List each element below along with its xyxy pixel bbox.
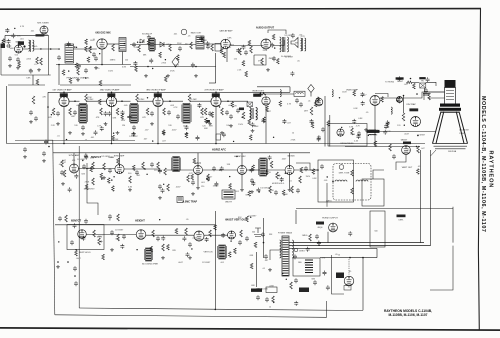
CRT neck outline — [445, 88, 456, 105]
mixer area part 23 junction — [124, 43, 125, 44]
svg-text:6.8K: 6.8K — [354, 108, 359, 110]
svg-text:270K: 270K — [291, 140, 296, 142]
vert area part 30 junction — [159, 219, 160, 220]
sync res R46 — [142, 162, 145, 169]
sync cap C41 — [82, 164, 86, 169]
psu cap C82 — [264, 254, 268, 259]
mixer bypass C5 — [94, 56, 98, 61]
tuner coil link — [33, 48, 51, 50]
4th IF transformer secondary winding — [256, 108, 258, 120]
sound IF area part 10 resistor — [159, 52, 162, 58]
vert area part 24 resistor — [175, 228, 178, 234]
output transformer primary T2a — [280, 37, 282, 52]
IF stage 3 bypass cap — [150, 111, 154, 116]
audio area part 2 capacitor — [242, 45, 246, 50]
horiz feed drop x263 — [263, 218, 265, 258]
IF strip area part 20 capacitor — [94, 130, 98, 135]
antenna terminal block — [1, 44, 6, 49]
mixer area part 20 junction — [74, 46, 75, 47]
svg-text:J2: J2 — [269, 307, 271, 309]
sync link 1 — [79, 168, 116, 170]
sound IF area part 12 resistor — [135, 66, 138, 72]
IF input cap — [29, 110, 33, 115]
svg-text:HV: HV — [421, 81, 424, 83]
svg-text:270K: 270K — [170, 71, 175, 73]
IF stage 2 bypass cap — [104, 111, 108, 116]
IF strip area part 60 junction — [66, 139, 67, 140]
sound IF area part 30 capacitor — [206, 41, 210, 46]
horiz area part 13 resistor — [282, 190, 285, 196]
vert area part 3 junction — [58, 241, 59, 242]
svg-text:HORIZ OUTPUT: HORIZ OUTPUT — [322, 218, 338, 220]
yoke damping resistor R55 — [351, 170, 354, 176]
svg-text:10: 10 — [338, 255, 341, 257]
video det box right — [289, 87, 291, 93]
damper tube V23 — [344, 276, 354, 286]
sync cap C44 — [150, 162, 154, 167]
CRT base leads — [431, 150, 437, 156]
defl dark label — [397, 215, 406, 218]
horiz drive res R57 — [269, 186, 272, 193]
mixer area part 17 junction — [68, 70, 69, 71]
video det cap b — [299, 102, 303, 107]
audio output tube V5 — [261, 39, 271, 49]
horiz area part 2 junction — [285, 173, 286, 174]
IF strip area part 59 junction — [219, 106, 220, 107]
vert area part 21 resistor — [214, 225, 217, 231]
IF stage 3 plate node — [157, 92, 159, 94]
IF stage 1 ground b — [68, 131, 72, 135]
video area part 19 capacitor — [360, 92, 364, 97]
svg-text:500: 500 — [128, 173, 132, 175]
crt socket cluster — [423, 94, 429, 96]
svg-text:1/2 6SN7: 1/2 6SN7 — [129, 136, 138, 138]
IF agc line — [15, 139, 135, 141]
svg-text:270K: 270K — [161, 63, 166, 65]
svg-text:1/2 6SN7GT: 1/2 6SN7GT — [83, 189, 95, 191]
audio res R11 — [169, 44, 172, 51]
horiz area part 21 resistor — [193, 158, 196, 164]
sync link 6 — [267, 169, 286, 171]
IF strip area part 72 resistor — [162, 130, 165, 136]
sync in branch — [30, 139, 53, 141]
vert area part 32 junction — [230, 240, 231, 241]
CRT cone left wall — [433, 112, 444, 144]
sync area part 12 junction — [163, 184, 164, 185]
svg-text:.01: .01 — [57, 136, 61, 138]
IF strip area part 57 resistor — [98, 99, 101, 105]
trap coil box — [177, 197, 183, 203]
audio ground — [266, 68, 270, 72]
svg-text:150V: 150V — [174, 65, 179, 67]
svg-text:6.8K: 6.8K — [128, 187, 133, 189]
power node 1 — [349, 257, 351, 259]
video amp plate R21 — [402, 113, 405, 121]
svg-text:150V: 150V — [238, 124, 243, 126]
IF link wire 1 — [69, 100, 80, 102]
svg-text:4.7K: 4.7K — [406, 150, 411, 152]
IF strip area part 44 resistor — [316, 97, 319, 103]
interlock cap C83 — [256, 295, 260, 300]
sync amplifier tube V13 — [70, 164, 79, 173]
sync area part 14 capacitor — [84, 155, 88, 160]
IF stage 4 tube type box (dark) — [212, 93, 220, 97]
svg-text:4.7K: 4.7K — [173, 107, 178, 109]
IF stage 3 bus node — [157, 143, 159, 145]
4th IF transformer cap — [251, 122, 255, 127]
IF stage 4 bus node — [215, 143, 217, 145]
power transformer secondary — [292, 240, 294, 258]
yoke node 1 — [317, 169, 319, 171]
IF stage 4 cathode resistor — [221, 108, 224, 115]
IF strip area part 34 capacitor — [317, 135, 321, 140]
yoke-psu link — [295, 210, 297, 224]
mixer ground — [94, 66, 98, 70]
svg-text:.0047: .0047 — [171, 130, 177, 132]
plug box wires — [373, 170, 384, 179]
svg-text:500: 500 — [252, 232, 256, 234]
video drop — [374, 106, 376, 147]
sync area part 8 junction — [159, 170, 160, 171]
grid resistor R1 — [36, 57, 39, 64]
mixer area part 24 resistor — [99, 80, 102, 86]
svg-text:.01: .01 — [308, 101, 312, 103]
IF strip area part 42 junction — [51, 114, 52, 115]
tuner lower line — [8, 84, 45, 86]
stage4 dark label — [239, 108, 244, 111]
svg-text:82K: 82K — [82, 173, 86, 175]
sync link 3 — [166, 169, 194, 171]
horiz drive cap C52 — [274, 190, 278, 195]
svg-text:VIDEO AMP: VIDEO AMP — [346, 89, 359, 92]
volume control box — [254, 55, 266, 65]
IF strip area part 15 resistor — [231, 102, 234, 108]
svg-text:WIDTH: WIDTH — [225, 202, 232, 204]
IF stage 3 ground b — [162, 131, 166, 135]
vert area part 36 capacitor — [84, 219, 88, 224]
IF strip area part 61 capacitor — [107, 111, 111, 116]
sound IF area part 26 junction — [137, 42, 138, 43]
sync node b — [144, 168, 146, 170]
vert cap C65 — [238, 240, 242, 245]
sound IF area part 13 junction — [139, 42, 140, 43]
input cap C1B — [6, 44, 11, 48]
audio area part 7 resistor — [277, 59, 280, 65]
sound diode X0 — [140, 39, 144, 43]
vert link 3 — [204, 234, 228, 236]
ion trap dark label — [409, 108, 418, 111]
mixer plate R5 — [112, 44, 115, 51]
svg-text:82K: 82K — [172, 250, 176, 252]
IF stage 4 grid resistor — [204, 108, 207, 115]
mixer bus — [56, 64, 131, 66]
IF strip area part 45 resistor — [205, 118, 208, 124]
yoke box drop — [326, 183, 328, 207]
stage4 extra res b — [242, 112, 245, 119]
power supply area part 23 capacitor — [317, 241, 321, 246]
svg-text:.001: .001 — [227, 47, 232, 49]
power drop x453 — [452, 207, 454, 243]
IF stage 2 drop wire — [111, 106, 113, 144]
sync ground 3 — [128, 188, 132, 192]
horiz area part 10 capacitor — [265, 170, 269, 175]
speaker field coil b — [305, 38, 306, 51]
page right edge rule — [478, 9, 480, 331]
svg-text:SYNC AMP: SYNC AMP — [69, 154, 80, 157]
RF coil L1 — [29, 40, 30, 51]
IF transformer T5 ground — [185, 132, 189, 136]
CRT return line 1 — [420, 150, 422, 243]
sync area part 28 junction — [82, 160, 83, 161]
vert res R66 — [209, 230, 212, 237]
sync drop 4 — [241, 153, 243, 166]
tuner top bus — [5, 34, 49, 36]
sync drop 3 — [197, 153, 199, 166]
horiz afc tube V15 — [194, 162, 203, 175]
horiz out cap C85 — [315, 234, 319, 239]
horiz drive res R58 — [291, 186, 294, 193]
video det series res — [258, 93, 266, 96]
row D top link — [55, 224, 215, 226]
tuner area part 13 resistor — [36, 79, 39, 85]
CRT deflection band 3 — [441, 112, 459, 113]
svg-text:68K: 68K — [251, 285, 255, 287]
svg-text:6K6GT VERT OUT: 6K6GT VERT OUT — [225, 219, 247, 222]
IF stage 3 drop wire — [157, 106, 159, 144]
horiz area part 8 resistor — [248, 191, 251, 197]
tuner-IF link — [58, 65, 60, 86]
af drop — [226, 48, 228, 62]
IF stage 1 cathode resistor — [69, 108, 72, 115]
svg-text:.05: .05 — [297, 61, 301, 63]
horiz osc tube drop — [241, 175, 243, 189]
horiz area part 30 capacitor — [206, 176, 210, 181]
svg-text:10: 10 — [292, 132, 295, 134]
svg-text:AUDIO OUTPUT: AUDIO OUTPUT — [256, 27, 275, 30]
svg-text:.001: .001 — [220, 262, 225, 264]
horiz area part 7 junction — [236, 156, 237, 157]
horiz area part 14 capacitor — [220, 166, 224, 171]
IF stage 3 cathode cap — [167, 110, 171, 115]
svg-text:.001: .001 — [90, 137, 95, 139]
svg-text:.0047: .0047 — [178, 262, 184, 264]
IF strip area part 21 capacitor — [127, 115, 131, 120]
IF transformer T4 ground — [132, 132, 136, 136]
IF strip area part 9 resistor — [211, 112, 214, 118]
sound IF area part 7 resistor — [147, 40, 150, 46]
IF stage 2 plate stub — [111, 92, 113, 97]
mixer cap C6 — [84, 68, 88, 73]
vert area part 39 resistor — [75, 251, 78, 257]
vert hold box — [67, 225, 104, 250]
IF transformer T4 cap — [132, 125, 136, 130]
tuner box bottom — [1, 74, 51, 76]
selenium rectifier stack 1 — [305, 260, 313, 273]
svg-text:VERT HOLD: VERT HOLD — [79, 252, 91, 254]
IF node b — [121, 100, 123, 102]
svg-text:TO HORIZ: TO HORIZ — [385, 82, 395, 84]
IF strip area part 36 capacitor — [196, 136, 200, 141]
af link — [204, 43, 221, 45]
svg-text:220K: 220K — [177, 43, 182, 45]
svg-text:4.7K: 4.7K — [189, 173, 194, 175]
sound IF area part 15 resistor — [201, 37, 204, 43]
svg-text:1/2 6SN7: 1/2 6SN7 — [101, 156, 110, 158]
video area part 6 capacitor — [361, 101, 365, 106]
vert blocking tube V19 — [78, 230, 87, 239]
power transformer primary — [280, 240, 282, 258]
brightness control box — [328, 124, 367, 147]
vert area part 40 capacitor — [186, 252, 190, 257]
IF stage 3 plate stub — [157, 92, 159, 97]
mixer cap C4 — [92, 52, 96, 57]
afc cap C46 — [212, 166, 216, 171]
audio area part 1 capacitor — [236, 48, 240, 53]
horiz oscillator tube V16 — [238, 165, 247, 174]
power line low — [320, 257, 377, 259]
sync res R42 — [92, 162, 95, 169]
sync ground 2 — [102, 176, 106, 180]
IF b+ feed drop — [47, 92, 49, 143]
vert hold pot R61 — [98, 238, 101, 245]
video area part 11 capacitor — [352, 119, 356, 124]
vert blocking transformer T10 — [144, 248, 152, 261]
IF strip area part 30 resistor — [266, 106, 269, 112]
row B tail cap 2 — [42, 151, 46, 156]
svg-text:500: 500 — [374, 230, 378, 232]
IF input cap 2 — [34, 116, 38, 121]
IF transformer T5 top resistor — [188, 94, 191, 102]
IF link wire 2 — [87, 100, 108, 102]
sync drop 2 — [119, 153, 121, 165]
svg-text:1MEG: 1MEG — [97, 237, 103, 239]
svg-text:270K: 270K — [87, 97, 92, 99]
osc top marks — [40, 34, 48, 37]
svg-text:BLOCKING XFMR: BLOCKING XFMR — [142, 264, 158, 266]
video detector crystal diamond — [308, 85, 314, 97]
svg-text:.0047: .0047 — [9, 48, 15, 50]
row D cap C68 — [108, 214, 112, 219]
afc ground — [191, 192, 195, 196]
sync area part 16 capacitor — [74, 174, 78, 179]
sound IF area part 21 resistor — [164, 76, 167, 82]
power supply area part 20 junction — [282, 273, 283, 274]
psu left drop — [256, 252, 258, 287]
video peaking L12 — [391, 107, 392, 114]
svg-text:1/2 6SN7: 1/2 6SN7 — [260, 187, 269, 189]
svg-text:.047: .047 — [62, 160, 67, 162]
sync drop 1 — [73, 153, 75, 164]
yoke left wires — [296, 163, 318, 170]
CRT cathode wire — [428, 97, 445, 99]
speaker field core a — [302, 38, 304, 51]
sync res R48 — [164, 168, 167, 175]
power drop x363 — [362, 258, 364, 311]
svg-text:47K: 47K — [322, 258, 326, 260]
row D res R68 — [65, 215, 68, 222]
svg-text:.05: .05 — [188, 36, 192, 38]
svg-text:47K: 47K — [42, 96, 46, 98]
tuner top corner part 4 capacitor — [7, 39, 11, 44]
IF transformer T3 top resistor — [85, 94, 88, 102]
ion trap magnet bars — [369, 130, 377, 134]
row B tail ground 1 — [23, 155, 27, 159]
vert output area part 7 junction — [417, 135, 418, 136]
sound IF area part 8 resistor — [177, 55, 180, 61]
horiz area part 9 junction — [229, 176, 230, 177]
svg-text:120: 120 — [234, 58, 238, 60]
tuner top corner part 3 junction — [14, 28, 15, 29]
svg-text:2.2K: 2.2K — [209, 126, 214, 128]
video area part 12 resistor — [374, 141, 377, 147]
horiz area part 34 capacitor — [251, 181, 255, 186]
hv rect dark label — [396, 77, 404, 79]
yoke input cap C51 — [304, 166, 308, 171]
vert hold pot R61 wiper — [100, 241, 102, 243]
svg-text:2ND ANODE: 2ND ANODE — [459, 129, 470, 132]
sync area part 21 resistor — [90, 166, 93, 172]
svg-text:HORIZ OSC: HORIZ OSC — [234, 156, 246, 158]
IF strip area part 64 resistor — [311, 123, 314, 129]
vert area part 4 junction — [191, 248, 192, 249]
tuner junction big — [23, 45, 25, 47]
row D res R69 — [117, 214, 120, 221]
af input box — [215, 44, 221, 52]
svg-text:33K: 33K — [269, 234, 273, 236]
svg-text:2.2K: 2.2K — [237, 69, 242, 71]
row C cap C48 — [158, 184, 162, 189]
svg-text:1MEG: 1MEG — [299, 251, 305, 253]
peaking coil L10 (horizontal) — [280, 90, 281, 97]
svg-text:.0047: .0047 — [266, 111, 272, 113]
video area part 1 capacitor — [357, 134, 361, 139]
tuner tube link — [23, 48, 29, 50]
sound IF area part 1 capacitor — [191, 63, 195, 68]
power supply area part 13 junction — [318, 245, 319, 246]
yoke cap C50 — [320, 164, 324, 169]
ac plug symbol — [254, 228, 262, 237]
sync area part 34 resistor — [112, 186, 115, 192]
svg-text:1/2 6SN7: 1/2 6SN7 — [77, 159, 86, 161]
crt socket cap stack — [424, 88, 428, 93]
CRT ion trap band 1 — [440, 104, 460, 107]
sound IF area part 20 junction — [152, 68, 153, 69]
vert res R60 — [93, 230, 96, 237]
svg-text:1MEG: 1MEG — [213, 185, 219, 187]
svg-text:120: 120 — [122, 125, 126, 127]
svg-text:4.7K: 4.7K — [20, 26, 25, 28]
B+ bus lower — [289, 245, 431, 247]
svg-text:6K6GT: 6K6GT — [401, 140, 408, 142]
audio out link — [273, 40, 285, 46]
yoke horizontal coil 1 — [335, 180, 347, 182]
horiz area part 18 resistor — [229, 184, 232, 190]
osc res R51 — [270, 161, 273, 168]
sound right stub — [209, 82, 216, 84]
svg-text:47K: 47K — [48, 117, 52, 119]
mixer node B — [101, 64, 103, 66]
IF link wire 4 — [138, 100, 154, 102]
video b+ drop — [403, 95, 405, 113]
ground node x215 — [215, 309, 217, 311]
hv filter R30 — [407, 81, 413, 84]
horiz output tube V17 — [285, 165, 294, 174]
tuner area part 2 capacitor — [11, 33, 15, 38]
stage4 small box — [216, 134, 221, 140]
sync link 2 — [124, 168, 160, 170]
svg-text:.001: .001 — [136, 175, 141, 177]
svg-text:4.5MC TRAP: 4.5MC TRAP — [183, 201, 198, 204]
